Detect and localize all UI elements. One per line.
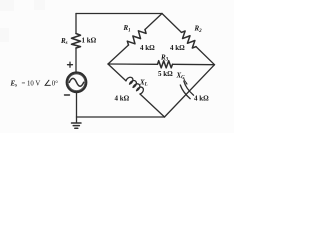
svg-text:R2: R2 <box>194 25 203 34</box>
scan smudge top-mid <box>34 0 45 10</box>
svg-text:Es: Es <box>10 79 18 88</box>
ground <box>72 123 82 128</box>
resistor R1 <box>126 27 147 48</box>
svg-text:4 kΩ: 4 kΩ <box>140 44 155 52</box>
svg-text:R1: R1 <box>123 24 131 33</box>
svg-text:4 kΩ: 4 kΩ <box>194 95 209 103</box>
wire top horizontal <box>76 13 162 15</box>
svg-text:4 kΩ: 4 kΩ <box>115 95 130 103</box>
wire right vertex to XC <box>165 65 215 117</box>
ac source Es circle <box>67 73 87 93</box>
wire XL to bottom vertex <box>140 94 165 117</box>
wire source to ground <box>76 92 78 122</box>
capacitor XC plate 1 <box>184 81 194 95</box>
angle symbol <box>45 80 51 85</box>
leader arrowhead <box>185 82 187 84</box>
svg-text:= 10 V: = 10 V <box>22 80 41 87</box>
capacitor XC plate 2 <box>180 85 190 99</box>
scan smudge top-left <box>0 0 14 11</box>
resistor R3 <box>158 61 173 68</box>
resistor R2 <box>179 30 199 49</box>
scan smudge left <box>0 28 9 42</box>
wire R1 to left vertex <box>108 45 129 64</box>
resistor Rs <box>72 34 81 49</box>
svg-text:Rs: Rs <box>60 37 68 46</box>
svg-text:5 kΩ: 5 kΩ <box>158 70 173 78</box>
svg-text:4 kΩ: 4 kΩ <box>170 44 185 52</box>
wire R3 to right vertex <box>173 63 215 65</box>
wire left vertical upper <box>75 14 77 34</box>
inductor XL <box>126 76 145 95</box>
plus sign <box>68 62 73 67</box>
wire left vertex to R3 <box>108 63 158 65</box>
svg-text:0°: 0° <box>52 80 58 87</box>
ac source sine <box>69 78 83 86</box>
svg-text:XL: XL <box>139 78 148 87</box>
leader arrow from XC label <box>184 78 188 84</box>
wire top vertex to R2 <box>162 14 181 33</box>
wire Rs to source <box>75 48 77 73</box>
svg-text:XC: XC <box>176 71 186 80</box>
svg-text:1 kΩ: 1 kΩ <box>82 37 97 45</box>
wire left vertex to XL <box>108 64 126 81</box>
wire bottom horizontal <box>77 116 165 118</box>
wire top vertex to R1 <box>145 14 162 30</box>
wire R2 to right vertex <box>196 47 215 65</box>
svg-text:R3: R3 <box>160 53 169 62</box>
minus sign <box>65 94 70 96</box>
